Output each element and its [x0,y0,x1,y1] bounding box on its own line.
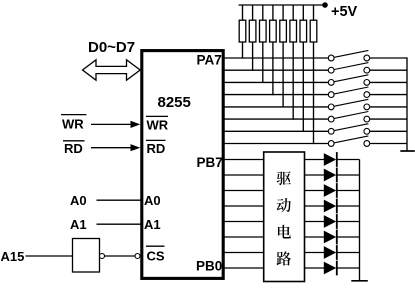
switch S2 [328,63,407,74]
svg-text:RD: RD [147,141,166,156]
svg-text:A1: A1 [70,217,87,232]
switch S5 [328,99,407,110]
resistor R8 (pull-up to +5V, drops to PA line 1) [310,5,317,144]
wire PA6 line from chip to switch S2 [224,69,328,71]
wire driver output row 3 [305,190,325,192]
switch S3 [328,75,407,86]
driver box label char 路 [277,251,292,265]
svg-text:CS: CS [147,249,165,264]
resistor R5 (pull-up to +5V, drops to PA line 4) [280,5,287,108]
signal WR-bar label (left) [61,115,87,132]
switch S6 [328,112,407,123]
wire RD arrow into chip [91,144,140,151]
inverter U2 (address decode buffer) [73,239,100,273]
LED D6 (diode) [324,230,337,245]
LED D1 (diode) [324,152,337,167]
wire PA2 line from chip to switch S6 [224,118,328,120]
wire driver output row 5 [305,221,325,223]
LED D4 (diode) [324,199,337,214]
wire PA3 line from chip to switch S5 [224,106,328,108]
wire PB1 line from chip to driver [224,252,264,254]
ground G2 (LED column) [351,280,368,282]
wire LED D4 cathode to ground rail [338,205,360,207]
wire inverter output to CS [105,255,136,257]
svg-text:A15: A15 [1,249,25,264]
LED D7 (diode) [324,245,337,260]
svg-text:A0: A0 [144,193,161,208]
svg-text:PB7: PB7 [197,155,223,170]
svg-text:PB0: PB0 [196,259,222,274]
wire WR arrow into chip [91,121,140,128]
resistor R1 (pull-up to +5V, drops to PA line 8) [239,5,246,59]
ground G1 (switch bank) [400,150,415,152]
wire LED D6 cathode to ground rail [338,236,360,238]
wire PA0 line from chip to switch S8 [224,143,328,145]
node +5V junction dot [322,2,328,8]
svg-text:8255: 8255 [158,94,191,111]
wire LED D1 cathode to ground rail [338,159,360,161]
wire LED D5 cathode to ground rail [338,221,360,223]
switch S4 [328,87,407,98]
pin label RD-bar (inside chip) [146,140,166,156]
wire driver output row 8 [305,267,325,269]
LED D8 (diode) [324,261,337,276]
wire switch common ground rail [406,57,408,150]
LED D2 (diode) [324,168,337,183]
LED D3 (diode) [324,183,337,198]
node inverter output bubble [100,254,105,259]
driver box label char 动 [277,198,291,212]
svg-text:D0~D7: D0~D7 [88,39,135,56]
wire PA7 line from chip to switch S1 [224,57,328,59]
node CS input bubble [135,254,140,259]
wire A15 to inverter [26,255,73,257]
driver box label char 驱 [277,171,291,185]
wire LED D3 cathode to ground rail [338,190,360,192]
wire A0 to chip [97,199,142,201]
wire driver output row 4 [305,205,325,207]
switch S1 [328,50,407,60]
wire LED D8 cathode to ground rail [338,267,360,269]
wire driver output row 6 [305,236,325,238]
svg-text:WR: WR [62,117,84,132]
wire driver output row 7 [305,252,325,254]
resistor R7 (pull-up to +5V, drops to PA line 2) [300,5,307,132]
wire PA5 line from chip to switch S3 [224,81,328,83]
wire driver output row 1 [305,159,325,161]
wire LED D7 cathode to ground rail [338,252,360,254]
wire PB7 line from chip to driver [224,159,264,161]
wire PA4 line from chip to switch S4 [224,94,328,96]
svg-text:A1: A1 [144,217,161,232]
wire LED D2 cathode to ground rail [338,174,360,176]
switch S8 [328,136,407,147]
svg-text:RD: RD [64,141,83,156]
pin label WR-bar (inside chip) [146,116,169,132]
driver circuit box (qu dong dian lu) [264,152,305,282]
resistor R4 (pull-up to +5V, drops to PA line 5) [270,5,277,95]
signal RD-bar label (left) [63,141,85,156]
wire PA1 line from chip to switch S7 [224,130,328,132]
wire PB0 line from chip to driver [224,267,264,269]
svg-text:A0: A0 [70,193,87,208]
pin label CS-bar (inside chip) [146,246,165,263]
svg-text:+5V: +5V [331,4,358,20]
bus D0~D7 bidirectional arrow [83,60,141,80]
wire PB4 line from chip to driver [224,205,264,207]
wire A1 to chip [97,223,142,225]
wire driver output row 2 [305,174,325,176]
wire LED common ground rail [359,160,361,281]
resistor R6 (pull-up to +5V, drops to PA line 3) [290,5,297,120]
driver box label char 电 [278,225,291,239]
svg-text:PA7: PA7 [197,53,222,68]
switch S7 [328,124,407,135]
resistor R3 (pull-up to +5V, drops to PA line 6) [260,5,267,83]
LED D5 (diode) [324,214,337,229]
wire +5V top rail [239,4,326,6]
resistor R2 (pull-up to +5V, drops to PA line 7) [249,5,256,71]
svg-text:WR: WR [147,117,169,132]
wire PB2 line from chip to driver [224,236,264,238]
IC U1 8255 body [142,51,223,279]
wire PB5 line from chip to driver [224,190,264,192]
wire PB6 line from chip to driver [224,174,264,176]
wire PB3 line from chip to driver [224,221,264,223]
